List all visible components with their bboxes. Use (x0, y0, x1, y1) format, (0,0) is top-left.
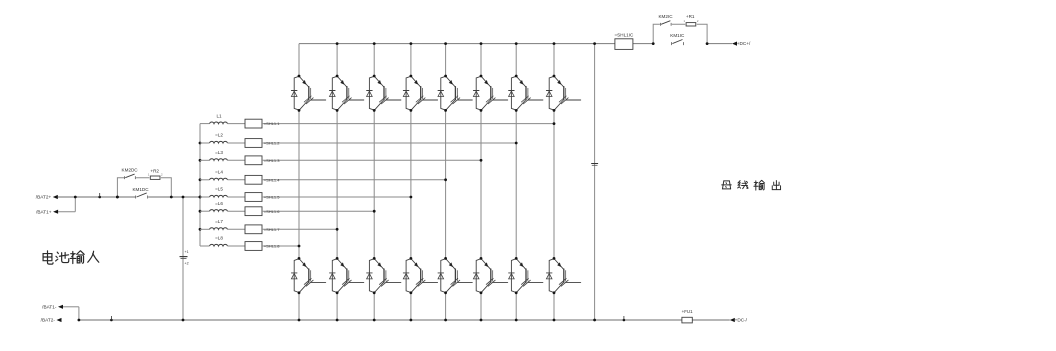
svg-text:=L5: =L5 (215, 187, 223, 192)
svg-text:L1: L1 (216, 113, 222, 118)
svg-text:KM1DC: KM1DC (132, 187, 149, 192)
svg-text:=SHL1.4: =SHL1.4 (264, 177, 280, 182)
svg-text:/BAT1-: /BAT1- (42, 304, 57, 309)
svg-text:=SHL1.5: =SHL1.5 (264, 195, 280, 200)
svg-text:KM2DC: KM2DC (122, 167, 139, 172)
svg-text:+R1: +R1 (686, 14, 695, 19)
svg-text:/BAT1+: /BAT1+ (36, 209, 52, 214)
svg-text:=SHL1.3: =SHL1.3 (264, 158, 280, 163)
svg-text:+DC+/: +DC+/ (737, 41, 751, 46)
svg-text:=SHL1.7: =SHL1.7 (264, 227, 280, 232)
svg-text:=L2: =L2 (215, 133, 223, 138)
svg-text:/BAT2+: /BAT2+ (36, 195, 52, 200)
svg-text:KM2IC: KM2IC (658, 14, 673, 19)
svg-text:+2: +2 (185, 262, 189, 266)
svg-text:=SHL1.8: =SHL1.8 (264, 244, 280, 249)
svg-text:+FU1: +FU1 (682, 309, 693, 314)
svg-text:=L8: =L8 (215, 236, 223, 241)
svg-text:=SHL1IC: =SHL1IC (615, 32, 634, 37)
svg-text:=L3: =L3 (215, 150, 223, 155)
svg-text:/BAT2-: /BAT2- (41, 318, 56, 323)
svg-text:=L4: =L4 (215, 170, 223, 175)
svg-text:+R2: +R2 (150, 168, 159, 173)
svg-text:KM1IC: KM1IC (670, 33, 685, 38)
svg-text:+DC-/: +DC-/ (735, 318, 748, 323)
svg-text:=SHL1.6: =SHL1.6 (264, 209, 280, 214)
svg-text:=L7: =L7 (215, 219, 223, 224)
svg-text:=L6: =L6 (215, 201, 223, 206)
svg-text:=SHL1.1: =SHL1.1 (264, 121, 280, 126)
svg-text:+1: +1 (185, 250, 189, 254)
svg-text:=SHL1.2: =SHL1.2 (264, 141, 280, 146)
